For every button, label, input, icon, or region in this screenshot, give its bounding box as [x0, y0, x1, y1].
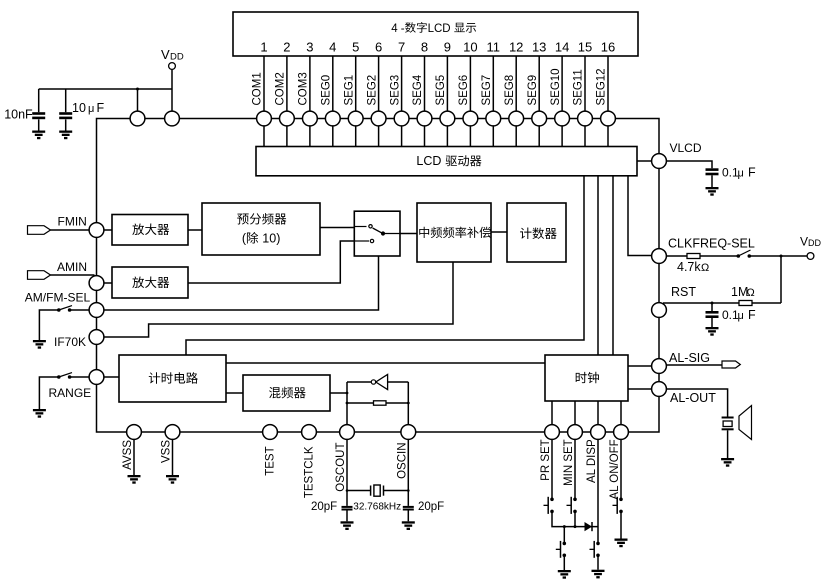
svg-text:SEG6: SEG6 — [458, 75, 470, 106]
svg-text:1: 1 — [260, 40, 267, 55]
svg-text:20pF: 20pF — [418, 501, 444, 513]
svg-text:DD: DD — [170, 52, 184, 63]
svg-text:3: 3 — [306, 40, 313, 55]
svg-text:4.7k: 4.7k — [677, 260, 701, 274]
svg-text:LCD: LCD — [428, 23, 451, 35]
svg-text:14: 14 — [555, 40, 569, 55]
svg-text:6: 6 — [375, 40, 382, 55]
svg-text:SEG3: SEG3 — [389, 75, 401, 106]
svg-text:FMIN: FMIN — [58, 215, 87, 229]
svg-text:12: 12 — [509, 40, 523, 55]
svg-text:9: 9 — [444, 40, 451, 55]
svg-text:COM3: COM3 — [298, 72, 310, 105]
svg-text:DD: DD — [808, 238, 821, 248]
svg-text:COM1: COM1 — [252, 72, 264, 105]
svg-text:AL-OUT: AL-OUT — [670, 391, 716, 405]
svg-text:8: 8 — [421, 40, 428, 55]
svg-text:MIN SET: MIN SET — [563, 439, 575, 486]
svg-text:32.768kHz: 32.768kHz — [353, 501, 401, 512]
svg-text:10): 10) — [262, 232, 280, 246]
svg-text:OSCIN: OSCIN — [397, 443, 409, 479]
svg-text:AVSS: AVSS — [122, 440, 134, 470]
svg-text:AL DISP: AL DISP — [586, 439, 598, 483]
svg-text:7: 7 — [398, 40, 405, 55]
svg-text:LCD: LCD — [416, 154, 441, 168]
svg-text:SEG11: SEG11 — [573, 69, 585, 105]
svg-text:11: 11 — [487, 40, 501, 55]
svg-text:PR SET: PR SET — [540, 439, 552, 481]
svg-text:RANGE: RANGE — [49, 386, 92, 400]
svg-text:F: F — [97, 101, 105, 115]
svg-text:CLKFREQ-SEL: CLKFREQ-SEL — [668, 237, 755, 251]
svg-text:VLCD: VLCD — [670, 141, 702, 155]
svg-text:SEG4: SEG4 — [412, 74, 424, 105]
svg-text:16: 16 — [601, 40, 615, 55]
svg-text:TESTCLK: TESTCLK — [304, 446, 316, 498]
svg-text:SEG7: SEG7 — [481, 75, 493, 106]
svg-text:F: F — [748, 166, 756, 180]
svg-text:Ω: Ω — [747, 287, 755, 299]
svg-text:AL ON/OFF: AL ON/OFF — [609, 439, 621, 499]
svg-text:μ: μ — [738, 310, 744, 322]
svg-text:SEG2: SEG2 — [366, 75, 378, 106]
svg-text:20pF: 20pF — [311, 501, 337, 513]
svg-text:SEG9: SEG9 — [527, 75, 539, 106]
svg-text:13: 13 — [532, 40, 546, 55]
svg-text:AM/FM-SEL: AM/FM-SEL — [25, 291, 91, 305]
svg-text:V: V — [800, 235, 808, 249]
svg-text:AL-SIG: AL-SIG — [669, 351, 710, 365]
svg-text:0.1: 0.1 — [722, 166, 739, 180]
svg-text:COM2: COM2 — [275, 72, 287, 105]
svg-text:TEST: TEST — [265, 446, 277, 475]
svg-text:4 -: 4 - — [391, 23, 405, 35]
svg-text:4: 4 — [329, 40, 336, 55]
svg-text:Ω: Ω — [701, 262, 709, 274]
svg-text:0.1: 0.1 — [722, 308, 739, 322]
svg-text:2: 2 — [283, 40, 290, 55]
svg-text:10: 10 — [72, 101, 86, 115]
svg-text:SEG12: SEG12 — [596, 68, 608, 105]
svg-text:μ: μ — [738, 168, 744, 180]
svg-text:15: 15 — [578, 40, 592, 55]
svg-text:SEG1: SEG1 — [343, 75, 355, 106]
svg-text:SEG0: SEG0 — [321, 75, 333, 106]
svg-text:SEG5: SEG5 — [435, 75, 447, 106]
svg-text:10nF: 10nF — [4, 107, 33, 121]
svg-text:V: V — [161, 47, 170, 62]
svg-text:μ: μ — [88, 103, 94, 115]
svg-text:10: 10 — [463, 40, 477, 55]
svg-text:VSS: VSS — [161, 440, 173, 463]
svg-text:OSCOUT: OSCOUT — [335, 443, 347, 492]
svg-text:SEG10: SEG10 — [550, 68, 562, 105]
svg-text:SEG8: SEG8 — [504, 75, 516, 106]
svg-text:F: F — [748, 308, 756, 322]
svg-text:IF70K: IF70K — [54, 335, 86, 349]
svg-text:AMIN: AMIN — [57, 260, 87, 274]
svg-text:5: 5 — [352, 40, 359, 55]
svg-text:RST: RST — [671, 285, 696, 299]
